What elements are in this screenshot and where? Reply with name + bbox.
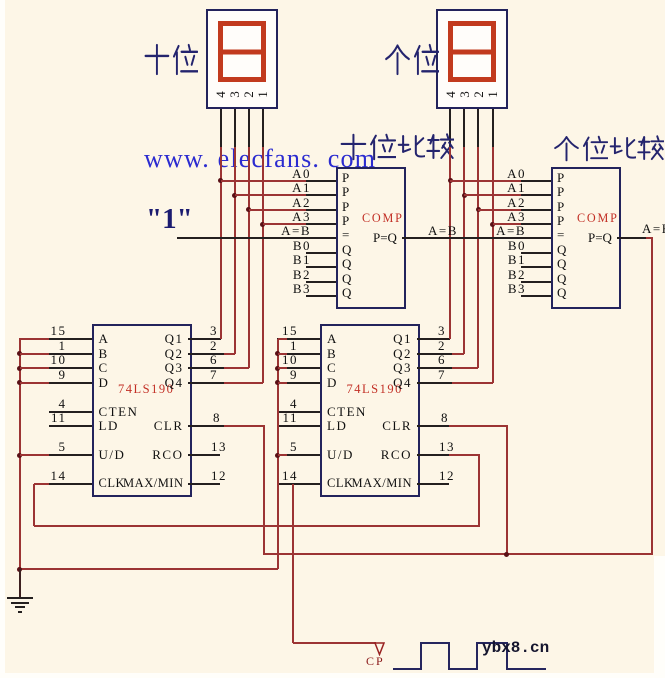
wire: U1 CLK riser — [34, 483, 49, 485]
wire: U1 Q2 to vertical — [224, 353, 235, 355]
wire: COMP2 A2 input row — [478, 209, 521, 211]
wire: COMP2 A3 input row — [493, 223, 522, 225]
junction U1 B row — [17, 351, 22, 356]
counter U2 74LS190 (units) left pin numbers 15 1 10 9 4 11 5 14 — [282, 324, 298, 338]
junction on COMP2 A2 row — [476, 207, 481, 212]
U2 RCO stub (pin 13) — [417, 454, 450, 456]
U2 Q3 output stub (pin 6) — [417, 367, 453, 369]
seven-segment display DS2 (units) body — [436, 9, 508, 109]
wire: COMP2 A0 input row — [450, 180, 521, 182]
junction U1 U/D row — [17, 453, 22, 458]
comparator U3 (tens COMP) label COMP — [362, 212, 404, 225]
wire: COMP2 output corner to reset bus — [646, 237, 653, 239]
wire: U1 Q3 to vertical — [224, 367, 249, 369]
U1 Q1 output stub (pin 3) — [188, 338, 221, 340]
counter U1 74LS190 (tens) left pin stubs — [49, 338, 92, 340]
scan white edge left — [0, 0, 5, 678]
display DS1 (tens) pin numbers 4 3 2 1 (rotated) — [214, 88, 227, 101]
junction on COMP1 A0 row — [218, 178, 223, 183]
junction U2 D row — [275, 380, 280, 385]
junction U2 U/D row — [275, 453, 280, 458]
wire: U2 D row — [278, 382, 288, 384]
comparator U4 (units COMP) internal pin letters P P P P = Q Q Q Q — [557, 171, 564, 185]
junction U2 C row — [275, 366, 280, 371]
wire: U2 A row to its ground bus corner — [278, 338, 288, 340]
wire: display DS2 (units) pin leads (black) — [449, 109, 451, 147]
junction U2 B row — [275, 351, 280, 356]
U1 CLR stub (pin 8) — [188, 425, 225, 427]
U1 Q2 output stub (pin 2) — [188, 353, 225, 355]
label (Chinese) shi-wei-bi-jiao (tens compare) title — [339, 133, 367, 161]
junction on COMP2 A3 row — [490, 222, 495, 227]
wire: U1 U/D row — [20, 454, 49, 456]
comparator U3 (tens COMP) input pin labels — [292, 167, 311, 181]
wire: U1 A row to ground bus corner — [19, 338, 49, 340]
U1 Q4 output stub (pin 7) — [188, 382, 225, 384]
wire: left ground bus vertical — [19, 339, 21, 569]
counter counter U1 74LS190 (tens) body — [92, 324, 192, 497]
ground symbol — [19, 569, 21, 598]
net label A=B (COMP1 output) — [428, 224, 458, 238]
scan white edge bottom — [0, 673, 665, 678]
wire: logic 1 to COMP1 A=B input — [177, 237, 306, 239]
watermark www.elecfans.com — [144, 145, 376, 174]
CP input port arrow — [374, 642, 385, 656]
wire: COMP2 P=Q output — [617, 237, 646, 239]
junction reset bus / U2 CLR — [504, 552, 509, 557]
U1 MAX/MIN stub (pin 12) — [188, 483, 221, 485]
label CP — [366, 655, 385, 668]
comparator U4 (units COMP) label COMP — [577, 212, 619, 225]
wire: COMP1 A0 input row — [221, 180, 307, 182]
comparator U4 (units COMP) input stubs A0-A3, A=B, B0-B3 — [521, 180, 551, 182]
label (Chinese) shi-wei (tens digit) — [143, 43, 170, 76]
junction on COMP2 A0 row — [448, 178, 453, 183]
wire: U1 Q4 to vertical — [224, 382, 263, 384]
comparator U3 (tens COMP) input stubs A0-A3, A=B, B0-B3 — [306, 180, 336, 182]
op-comparator comparator U4 (units COMP) body — [551, 167, 621, 309]
seven-segment display DS1 (tens) segments (figure 8) — [216, 19, 268, 84]
U1 Q3 output stub (pin 6) — [188, 367, 225, 369]
U2 Q2 output stub (pin 2) — [417, 353, 453, 355]
wire: CP vertical to U2 CLK — [292, 484, 294, 643]
wire: DS2 pin4 / U2 Q1 vertical — [449, 147, 451, 339]
display DS2 (units) pin numbers 4 3 2 1 (rotated) — [444, 88, 457, 101]
counter U2 74LS190 (units) internal pin names right side — [393, 332, 412, 346]
junction U1 D row — [17, 380, 22, 385]
label ybx8.cn — [482, 640, 549, 658]
comparator U4 (units COMP) label P=Q — [588, 231, 612, 245]
wire: CP horizontal — [293, 642, 376, 644]
op-comparator comparator U3 (tens COMP) body — [336, 167, 406, 309]
junction on COMP2 A1 row — [462, 193, 467, 198]
clock square waveform — [391, 640, 549, 673]
junction on COMP1 A1 row — [232, 193, 237, 198]
seven-segment display DS1 (tens) body — [206, 9, 278, 109]
U2 Q1 output stub (pin 3) — [417, 338, 451, 340]
counter U1 74LS190 (tens) internal pin names left side — [99, 332, 110, 346]
wire: display DS1 (tens) pin leads (black) — [220, 109, 222, 147]
counter U2 74LS190 (units) left pin stubs — [277, 338, 320, 340]
label (Chinese) ge-wei (units digit) — [384, 43, 411, 76]
wire: U2 C row — [278, 367, 288, 369]
wire: COMP1 P=Q output to COMP2 A=B input — [402, 237, 551, 239]
junction U1 C row — [17, 366, 22, 371]
wire: U1 CLR riser — [224, 425, 265, 427]
wire: COMP1 A1 input row — [235, 194, 307, 196]
wire: DS2 pin3 / U2 Q2 vertical — [463, 147, 465, 354]
wire: DS2 pin1 / U2 Q4 vertical — [492, 147, 494, 383]
wire: U1 D row — [20, 382, 49, 384]
wire: right ground bus vertical — [277, 339, 279, 569]
label (Chinese) ge-wei-bi-jiao (units compare) title — [553, 135, 580, 162]
comparator U3 (tens COMP) internal pin letters P P P P = Q Q Q Q — [342, 171, 349, 185]
counter U2 74LS190 (units) label 74LS190 — [347, 383, 403, 397]
wire: U2 RCO to clock bus — [449, 454, 480, 456]
wire: reset bus horizontal — [263, 553, 653, 555]
net label A=B (COMP2 output, clipped) — [642, 222, 665, 236]
wire: DS2 pin2 / U2 Q3 vertical — [477, 147, 479, 368]
wire: ground bus bottom horizontal — [20, 568, 278, 570]
junction at ground stem — [17, 567, 22, 572]
comparator U3 (tens COMP) label P=Q — [373, 231, 397, 245]
constant "1" label — [146, 204, 193, 236]
wire: DS1 pin4 / U1 Q1 vertical — [220, 147, 222, 339]
wire: COMP2 A1 input row — [464, 194, 521, 196]
wire: U2 U/D row — [278, 454, 288, 456]
counter U2 74LS190 (units) internal pin names left side — [327, 332, 338, 346]
seven-segment display DS2 (units) segments (figure 8) — [446, 19, 498, 84]
wire: clock bus horizontal — [34, 525, 480, 527]
wire: COMP1 A3 input row — [263, 223, 307, 225]
U2 MAX/MIN stub (pin 12) — [417, 483, 450, 485]
counter U1 74LS190 (tens) label 74LS190 — [118, 383, 174, 397]
wire: DS1 pin3 / U1 Q2 vertical — [234, 147, 236, 354]
wire: U2 CLK stub — [293, 483, 316, 485]
wire: U2 B row — [278, 353, 288, 355]
wire: U2 CLR riser — [449, 425, 508, 427]
scan white patch bottom-right — [654, 556, 665, 678]
wire: DS1 pin2 / U1 Q3 vertical — [248, 147, 250, 368]
wire: COMP1 A2 input row — [249, 209, 307, 211]
counter U1 74LS190 (tens) left pin numbers 15 1 10 9 4 11 5 14 — [51, 324, 67, 338]
comparator U4 (units COMP) input pin labels — [507, 167, 526, 181]
counter counter U2 74LS190 (units) body — [320, 324, 420, 497]
U1 RCO stub (pin 13) — [188, 454, 221, 456]
wire: U1 C row — [20, 367, 49, 369]
U2 CLR stub (pin 8) — [417, 425, 450, 427]
junction on COMP1 A2 row — [246, 207, 251, 212]
U2 Q4 output stub (pin 7) — [417, 382, 453, 384]
counter U1 74LS190 (tens) internal pin names right side — [165, 332, 184, 346]
wire: U1 B row — [20, 353, 49, 355]
junction on COMP1 A3 row — [260, 222, 265, 227]
wire: DS1 pin1 / U1 Q4 vertical — [262, 147, 264, 383]
